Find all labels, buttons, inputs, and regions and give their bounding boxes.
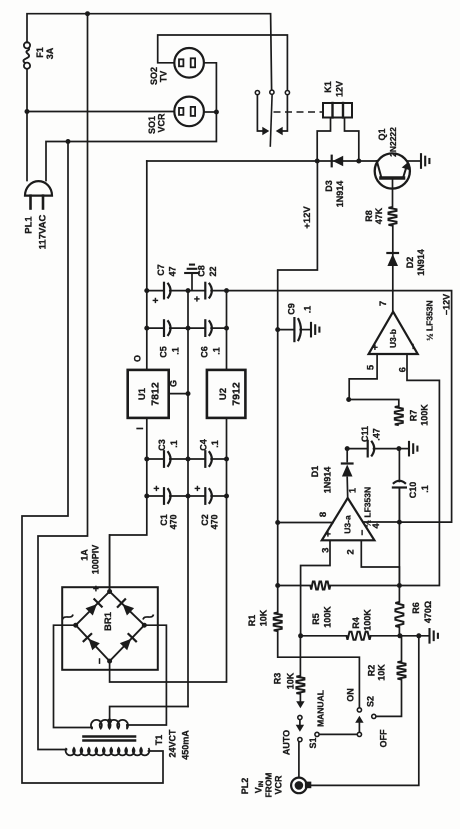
wire raw+ rail	[110, 418, 147, 592]
svg-text:+12V: +12V	[302, 206, 313, 229]
svg-text:8: 8	[318, 512, 329, 517]
svg-text:MANUAL: MANUAL	[316, 690, 326, 727]
svg-text:+: +	[91, 585, 103, 591]
svg-text:.1: .1	[210, 440, 220, 448]
junction	[275, 327, 280, 332]
op-amp U3-a	[321, 487, 382, 555]
svg-text:S2: S2	[366, 696, 376, 707]
svg-text:4: 4	[371, 523, 382, 529]
junction	[85, 11, 90, 16]
svg-text:100K: 100K	[420, 404, 430, 426]
svg-text:2N2222: 2N2222	[388, 127, 398, 157]
svg-text:I: I	[135, 427, 145, 430]
resistor R5	[278, 582, 400, 628]
relay contact A	[255, 90, 269, 135]
svg-text:S1: S1	[308, 737, 318, 748]
svg-text:C11: C11	[360, 426, 370, 442]
junction	[298, 633, 303, 638]
wire	[147, 160, 377, 162]
pin 5	[366, 364, 377, 370]
svg-text:R2: R2	[367, 665, 377, 677]
svg-text:2: 2	[346, 549, 357, 554]
svg-text:T1: T1	[154, 735, 164, 746]
svg-text:+: +	[193, 485, 204, 491]
svg-text:5: 5	[366, 364, 377, 370]
junction	[356, 159, 361, 164]
plug PL1	[24, 181, 53, 249]
junction	[396, 446, 401, 451]
resistor R3	[273, 636, 305, 694]
diode D2	[387, 249, 426, 276]
wire jack return	[311, 636, 419, 786]
wire pin 2	[361, 540, 399, 585]
svg-text:BR1: BR1	[103, 611, 114, 631]
svg-text:1: 1	[348, 487, 359, 493]
junction	[397, 633, 402, 638]
svg-text:C1: C1	[159, 514, 169, 526]
resistor R4	[301, 609, 430, 640]
svg-text:R8: R8	[364, 210, 374, 222]
svg-text:24VCT: 24VCT	[168, 729, 178, 758]
svg-text:C7: C7	[156, 264, 166, 276]
outlet SO1 VCR	[147, 97, 204, 134]
svg-text:1N914: 1N914	[323, 467, 333, 494]
svg-text:O: O	[133, 355, 143, 362]
wire VCR feed	[27, 111, 174, 113]
junction	[25, 109, 30, 114]
wire pin 6	[399, 354, 439, 586]
svg-text:+: +	[193, 296, 204, 302]
svg-text:7912: 7912	[231, 382, 243, 406]
svg-text:C10: C10	[408, 482, 418, 499]
svg-text:FROM: FROM	[264, 772, 274, 797]
ground	[421, 154, 429, 168]
svg-text:47K: 47K	[374, 207, 384, 224]
op-amp U3-b	[369, 294, 452, 354]
svg-text:.1: .1	[169, 440, 179, 448]
svg-text:C5: C5	[159, 346, 169, 358]
ground	[399, 442, 418, 456]
junction	[397, 520, 402, 525]
junction	[345, 446, 350, 451]
pin 6	[398, 367, 409, 372]
wire +12V feed	[278, 161, 318, 523]
junction	[144, 494, 149, 499]
svg-text:1N914: 1N914	[416, 249, 426, 276]
svg-text:SO1: SO1	[147, 116, 157, 134]
wire	[277, 523, 279, 613]
regulator U1	[128, 355, 188, 430]
svg-text:10K: 10K	[377, 664, 387, 681]
svg-text:R5: R5	[311, 613, 321, 625]
wire	[392, 226, 394, 312]
transistor Q1	[375, 127, 410, 189]
capacitor C9	[278, 303, 313, 341]
svg-text:.1: .1	[420, 485, 430, 493]
capacitor C6	[188, 320, 227, 357]
wire raw- rail	[110, 418, 227, 682]
svg-text:100K: 100K	[323, 606, 333, 628]
wire center tap	[110, 707, 188, 727]
wire	[392, 180, 394, 208]
svg-text:OFF: OFF	[379, 729, 389, 747]
wire	[278, 631, 360, 707]
junction	[214, 110, 219, 115]
svg-text:117VAC: 117VAC	[38, 215, 49, 250]
junction	[186, 326, 191, 331]
junction	[315, 159, 320, 164]
junction	[224, 457, 229, 462]
svg-text:47: 47	[168, 266, 178, 276]
junction	[186, 457, 191, 462]
svg-text:−: −	[408, 343, 419, 349]
wire	[109, 535, 111, 592]
capacitor C8	[188, 265, 227, 302]
svg-text:C2: C2	[200, 514, 210, 526]
bridge BR1	[62, 545, 158, 670]
wire -12V	[227, 291, 452, 523]
junction	[397, 583, 402, 588]
capacitor C3	[147, 439, 188, 467]
svg-text:VCR: VCR	[274, 775, 284, 795]
svg-text:100PIV: 100PIV	[91, 545, 101, 575]
capacitor C11	[347, 426, 399, 456]
svg-text:½ LF353N: ½ LF353N	[363, 487, 373, 527]
svg-text:1N914: 1N914	[335, 181, 345, 208]
capacitor C2	[188, 485, 227, 529]
node +12V	[302, 206, 313, 229]
svg-text:G: G	[169, 380, 179, 387]
svg-text:D1: D1	[310, 466, 320, 478]
svg-text:−: −	[358, 530, 369, 536]
wire fuse to contact	[27, 14, 272, 90]
junction	[186, 391, 191, 396]
wire neutral	[46, 63, 216, 181]
wire +12V rail	[146, 161, 148, 370]
svg-text:Q1: Q1	[377, 128, 387, 140]
resistor R2	[367, 636, 406, 681]
wire	[349, 400, 399, 407]
wire pin 5	[349, 354, 377, 400]
svg-text:PL2: PL2	[240, 778, 250, 795]
svg-text:F1: F1	[35, 47, 45, 58]
wire pin 4	[363, 521, 399, 523]
junction	[66, 139, 71, 144]
wire ground rail	[187, 291, 189, 707]
relay actuator link	[274, 111, 323, 113]
junction	[224, 326, 229, 331]
svg-text:C9: C9	[287, 303, 297, 315]
ground	[185, 265, 199, 291]
svg-text:R1: R1	[247, 615, 257, 627]
svg-text:C3: C3	[157, 439, 167, 451]
svg-text:+: +	[323, 531, 334, 537]
svg-text:+: +	[151, 297, 162, 303]
junction	[224, 494, 229, 499]
svg-text:450mA: 450mA	[181, 730, 191, 760]
svg-text:−12V: −12V	[442, 294, 452, 315]
capacitor C10	[393, 449, 430, 522]
svg-text:R4: R4	[351, 617, 361, 629]
transformer T1	[66, 720, 191, 760]
wire hot to primary	[38, 14, 88, 750]
diode D1	[310, 449, 353, 498]
svg-text:TV: TV	[159, 71, 169, 83]
svg-text:SO2: SO2	[149, 67, 159, 85]
capacitor C5	[147, 320, 188, 357]
svg-text:.1: .1	[171, 347, 181, 355]
resistor R8	[364, 207, 397, 226]
svg-text:R3: R3	[273, 673, 283, 685]
wire AC hot	[26, 69, 28, 181]
ground	[430, 629, 438, 643]
jack PL2	[240, 742, 311, 798]
wire	[204, 111, 217, 113]
relay coil K1	[317, 81, 359, 161]
fuse F1	[23, 42, 55, 69]
wire pin 3	[301, 540, 330, 636]
resistor R6	[395, 586, 433, 636]
svg-text:D3: D3	[324, 180, 334, 192]
switch S1	[282, 690, 358, 755]
resistor R1	[247, 609, 282, 631]
svg-text:C4: C4	[199, 439, 209, 451]
regulator U2	[207, 370, 246, 418]
capacitor C7	[147, 264, 188, 303]
svg-text:+: +	[152, 485, 163, 491]
svg-text:1A: 1A	[80, 549, 90, 561]
svg-text:U2: U2	[218, 388, 229, 400]
svg-text:VCR: VCR	[157, 113, 167, 133]
svg-text:22: 22	[208, 266, 218, 276]
ground	[311, 323, 319, 337]
svg-text:R7: R7	[409, 410, 419, 422]
svg-text:10K: 10K	[259, 609, 269, 626]
relay contact C	[276, 90, 290, 135]
junction	[416, 633, 421, 638]
junction	[275, 520, 280, 525]
svg-text:470Ω: 470Ω	[423, 601, 433, 623]
diode D3	[324, 156, 345, 208]
relay contact B	[270, 90, 274, 146]
svg-text:.1: .1	[303, 306, 313, 314]
svg-text:PL1: PL1	[24, 216, 35, 234]
svg-text:½ LF353N: ½ LF353N	[425, 300, 435, 340]
junction	[144, 288, 149, 293]
capacitor C1	[147, 485, 188, 529]
svg-text:10K: 10K	[286, 672, 296, 689]
wire TV feed	[158, 35, 288, 90]
junction	[275, 583, 280, 588]
outlet SO2 TV	[149, 48, 204, 85]
svg-text:R6: R6	[411, 602, 421, 614]
svg-text:AUTO: AUTO	[282, 730, 292, 755]
switch S2	[346, 680, 402, 748]
svg-text:7: 7	[378, 301, 389, 306]
wire neutral to primary	[22, 142, 163, 784]
wire	[398, 488, 400, 586]
svg-text:.1: .1	[212, 347, 222, 355]
svg-text:ON: ON	[346, 688, 356, 702]
svg-text:470: 470	[210, 514, 220, 529]
junction	[144, 326, 149, 331]
svg-text:−: −	[94, 658, 106, 664]
junction	[186, 494, 191, 499]
svg-text:U3-a: U3-a	[343, 515, 353, 534]
wire	[408, 160, 421, 162]
svg-text:12V: 12V	[335, 81, 345, 97]
svg-text:K1: K1	[323, 81, 333, 93]
capacitor C4	[188, 439, 227, 467]
svg-text:C8: C8	[197, 265, 207, 277]
svg-text:+: +	[370, 344, 381, 350]
resistor R7	[395, 404, 430, 426]
wire bridge AC1	[54, 625, 93, 727]
wire -12V rail	[226, 291, 228, 370]
junction	[186, 288, 191, 293]
junction	[144, 457, 149, 462]
svg-text:C6: C6	[200, 346, 210, 358]
junction	[224, 288, 229, 293]
svg-text:U1: U1	[137, 387, 148, 400]
svg-text:D2: D2	[405, 257, 415, 269]
svg-text:7812: 7812	[150, 382, 162, 406]
svg-text:470: 470	[169, 514, 179, 529]
wire bridge AC2	[127, 625, 166, 725]
svg-text:.47: .47	[372, 428, 382, 441]
junction	[107, 719, 112, 724]
svg-text:U3-b: U3-b	[388, 329, 398, 348]
svg-text:3A: 3A	[45, 47, 55, 59]
wire pin 8	[278, 522, 333, 524]
svg-text:100K: 100K	[363, 609, 373, 631]
junction	[346, 397, 351, 402]
pin 8	[318, 512, 329, 517]
